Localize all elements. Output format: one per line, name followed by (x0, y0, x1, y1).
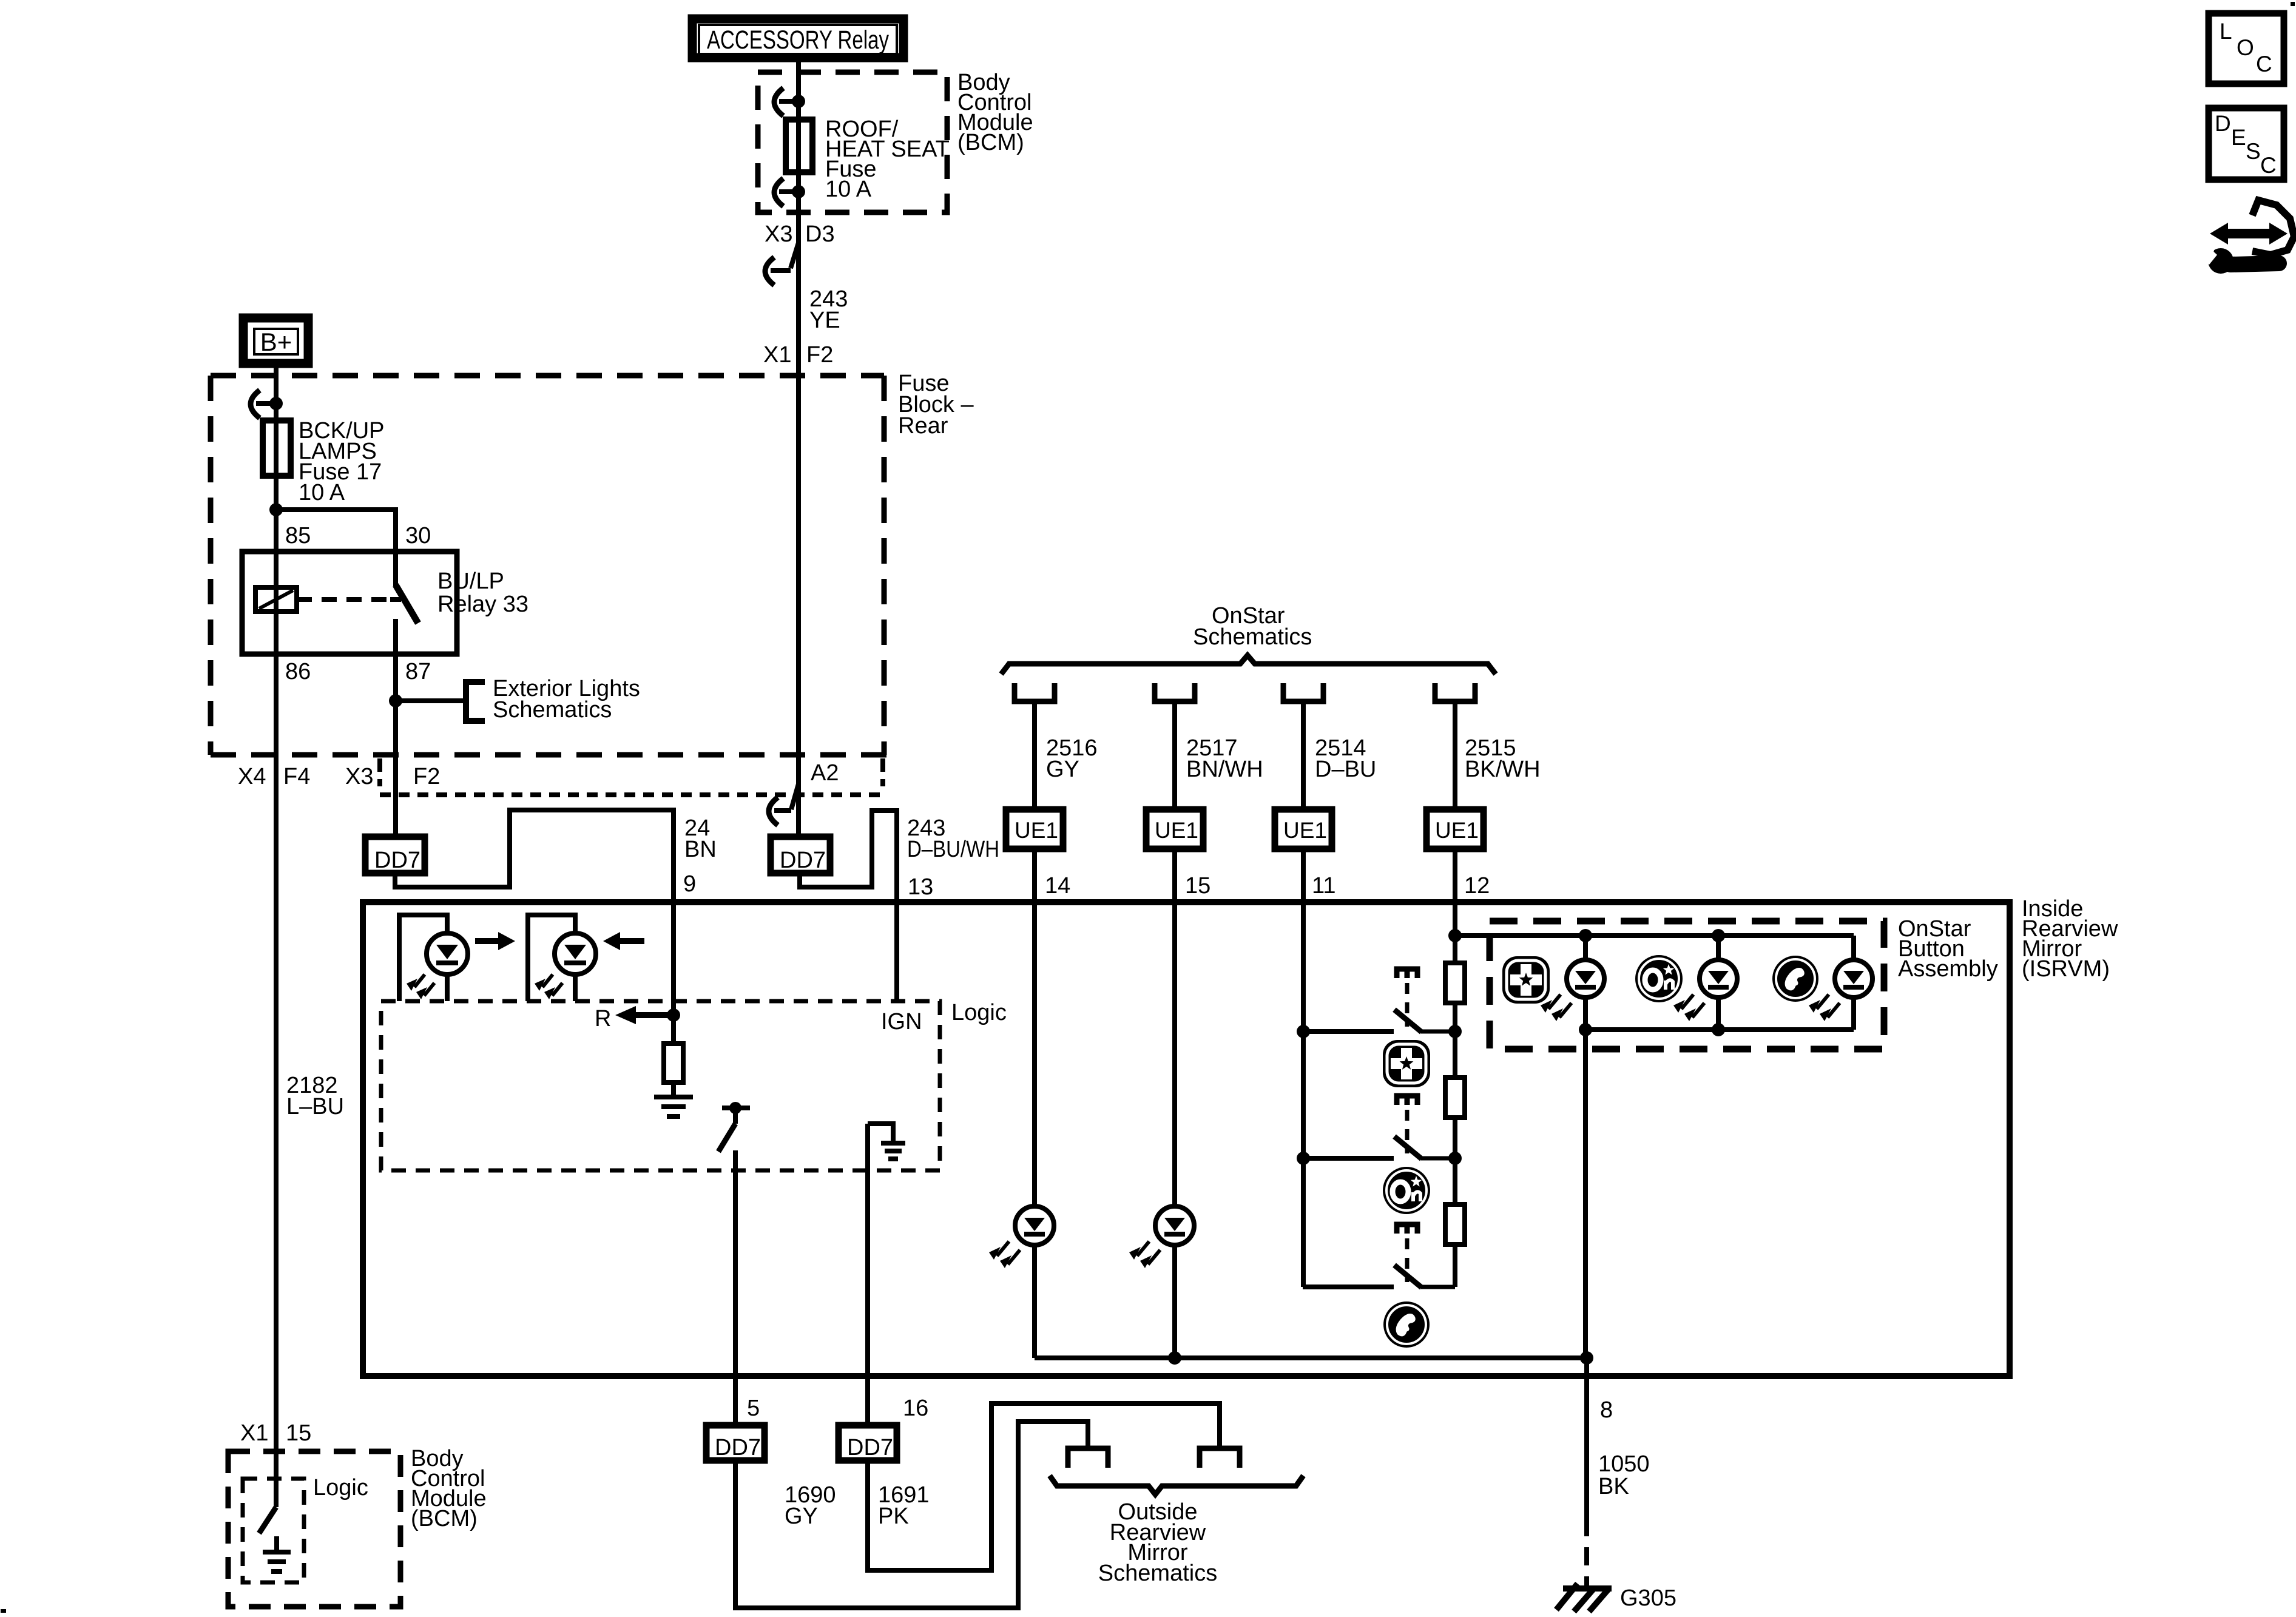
OnStar Button Assembly label (1898, 916, 1998, 982)
switch row 1 emergency (1303, 969, 1455, 1032)
svg-text:GY: GY (1046, 757, 1079, 782)
node exterior lights tap (389, 694, 402, 707)
brace OnStar schematics (1001, 655, 1496, 674)
svg-text:X1: X1 (763, 342, 791, 368)
wire 1050 BK (1584, 1376, 1589, 1518)
wire 2515 BK/WH (1453, 704, 1457, 809)
Inside Rearview Mirror (ISRVM) label (2022, 896, 2118, 982)
node BCM feed top (792, 95, 805, 108)
svg-text:DD7: DD7 (374, 848, 420, 873)
svg-text:(ISRVM): (ISRVM) (2022, 956, 2110, 982)
svg-text:85: 85 (285, 523, 311, 549)
connector jog X3/D3 (765, 243, 799, 285)
icon LOC box (2209, 13, 2284, 84)
svg-text:9: 9 (683, 871, 696, 897)
svg-text:(BCM): (BCM) (957, 130, 1024, 155)
connector to OnStar pin 11 (1283, 683, 1323, 701)
connector UE1 (1006, 809, 1063, 849)
wire label 243 D-BU/WH (907, 815, 999, 862)
connector UE1 (1427, 809, 1484, 849)
wire 243 D-BU/WH jog from DD7 (800, 811, 897, 1001)
arrow R input (615, 1006, 672, 1024)
LED A (1541, 936, 1604, 1030)
relay coil (255, 587, 297, 612)
connector strip X4/F4 X3/F2 A2 labels (238, 760, 839, 789)
BCM top dashed box (758, 72, 947, 212)
svg-text:Schematics: Schematics (1193, 624, 1312, 650)
svg-text:Schematics: Schematics (1098, 1561, 1217, 1586)
node BCK/UP fuse top (269, 397, 283, 410)
connector to OnStar pin 12 (1435, 683, 1475, 701)
icon onstar button assembly (1635, 955, 1683, 1002)
svg-text:12: 12 (1464, 873, 1490, 899)
icon arrow wrench (2190, 200, 2294, 274)
LED backlight 15 (1129, 1206, 1194, 1268)
relay BU/LP Relay 33 box (242, 552, 457, 654)
svg-text:Logic: Logic (951, 1000, 1007, 1025)
svg-text:UE1: UE1 (1283, 818, 1327, 843)
svg-text:BN: BN (684, 837, 717, 862)
wire exterior lights tap (396, 698, 466, 703)
node LED B bottom (1712, 1023, 1725, 1036)
connector to OnStar pin 15 (1155, 683, 1195, 701)
wire resistor chain top (1448, 929, 1462, 942)
resistor 2 (1445, 1078, 1465, 1118)
svg-text:D: D (2215, 111, 2231, 136)
connector DD7 A2 (771, 837, 830, 873)
wire 1690 GY route (735, 1422, 1088, 1608)
fuse ROOF/HEAT SEAT 10A (786, 120, 812, 172)
icon phone button ladder (1383, 1301, 1430, 1348)
icon emergency button ladder (1383, 1040, 1430, 1087)
wire LED bus top (1455, 933, 1854, 938)
ground in BCM logic (263, 1536, 291, 1571)
svg-text:Assembly: Assembly (1898, 956, 1998, 982)
svg-text:13: 13 (908, 874, 933, 900)
node chain 1 (1448, 1025, 1462, 1038)
wire B+ down left rail (274, 364, 279, 1507)
svg-text:R: R (595, 1006, 611, 1031)
ACCESSORY Relay title box (692, 19, 903, 58)
ground G305 (1556, 1584, 1612, 1612)
switch row 3 phone (1303, 1224, 1455, 1288)
wire pin 15 to LED (1172, 902, 1177, 1207)
wire 1691 PK route (868, 1403, 1220, 1570)
svg-text:X4: X4 (238, 764, 266, 789)
svg-text:D3: D3 (805, 221, 835, 247)
svg-text:X1: X1 (240, 1420, 268, 1446)
svg-text:GY: GY (785, 1504, 818, 1529)
wire UE1 to pin 12 (1453, 849, 1457, 936)
wire label 243 YE (809, 286, 848, 333)
svg-text:Logic: Logic (313, 1475, 368, 1501)
photodiode sensor B (528, 915, 596, 1001)
Logic dashed box BCM (243, 1479, 304, 1582)
svg-text:D–BU/WH: D–BU/WH (907, 837, 999, 862)
connector outside mirror right (1200, 1448, 1240, 1468)
svg-text:X3: X3 (765, 221, 792, 247)
node below fuse (792, 185, 805, 198)
BCK/UP LAMPS fuse label (299, 418, 384, 505)
Fuse Block - Rear dashed box (211, 376, 888, 755)
wire switch to pin 5 (733, 1150, 738, 1425)
svg-text:O: O (2237, 35, 2254, 60)
wire ISRVM ground bus (1035, 1355, 1587, 1360)
svg-text:5: 5 (747, 1396, 760, 1421)
wire label 1050 BK (1598, 1451, 1650, 1499)
LED B (1673, 936, 1737, 1030)
clip connector below fuse (774, 178, 799, 206)
svg-text:D–BU: D–BU (1315, 757, 1376, 782)
switch mirror fold in logic (718, 1102, 750, 1152)
svg-text:C: C (2256, 52, 2272, 76)
ROOF/HEAT SEAT Fuse label (825, 116, 950, 202)
svg-text:X3: X3 (345, 764, 373, 789)
icon phone button assembly (1772, 956, 1818, 1002)
wire ground hook to pin 16 (865, 1124, 870, 1425)
icon DESC box (2209, 108, 2284, 180)
svg-text:L: L (2220, 19, 2232, 44)
node rung 2 (1297, 1152, 1310, 1165)
switch in BCM logic (259, 1507, 276, 1533)
wire 2514 D-BU (1301, 704, 1306, 809)
svg-text:UE1: UE1 (1155, 818, 1198, 843)
svg-text:F2: F2 (413, 764, 440, 789)
svg-text:UE1: UE1 (1435, 818, 1479, 843)
connector strip dashed underline (380, 758, 885, 795)
svg-text:16: 16 (903, 1396, 928, 1421)
svg-text:G305: G305 (1620, 1585, 1676, 1611)
svg-text:DD7: DD7 (847, 1435, 893, 1460)
resistor 3 (1445, 1204, 1465, 1244)
Body Control Module (BCM) label bottom (411, 1446, 487, 1531)
connector X1/15 labels BCM (240, 1420, 311, 1446)
wire 2516 GY (1032, 704, 1037, 809)
svg-text:15: 15 (286, 1420, 311, 1446)
wire 24 BN jog from DD7 (395, 810, 674, 1015)
OnStar Schematics label (1193, 603, 1312, 650)
svg-text:IGN: IGN (881, 1009, 922, 1035)
wire pin 14 to LED (1032, 902, 1037, 1207)
wire label 2516 GY (1046, 735, 1098, 782)
clip connector at BCM feed top (774, 88, 799, 116)
photodiode sensor A (399, 915, 468, 1001)
connector to OnStar pin 14 (1015, 683, 1055, 701)
bracket exterior lights reference (466, 682, 485, 721)
relay switch blade (396, 585, 418, 623)
resistor below R (664, 1015, 683, 1096)
wire UE1 to pin 15 (1172, 849, 1177, 902)
switch row 2 onstar (1303, 1096, 1455, 1159)
node fuse bottom / relay branch (269, 503, 283, 516)
wire label 1691 PK (878, 1482, 930, 1529)
ground hook IGN side (868, 1124, 905, 1159)
svg-text:86: 86 (285, 659, 311, 684)
OnStar Button Assembly dashed box (1490, 921, 1884, 1049)
Body Control Module (BCM) label (957, 70, 1033, 155)
connector X1/F2 labels (763, 342, 833, 368)
Exterior Lights Schematics label (493, 676, 640, 723)
connector DD7 pin5 (706, 1425, 765, 1460)
svg-text:L–BU: L–BU (286, 1094, 344, 1119)
svg-text:87: 87 (405, 659, 431, 684)
svg-text:BU/LP: BU/LP (437, 569, 504, 594)
node LED B top (1712, 929, 1725, 942)
icon onstar button ladder (1383, 1167, 1430, 1214)
wire UE1 to pin 14 (1032, 849, 1037, 902)
svg-text:F4: F4 (283, 764, 310, 789)
node R tap (667, 1008, 680, 1022)
wire label 24 BN (684, 815, 717, 862)
svg-text:Schematics: Schematics (493, 697, 612, 723)
svg-text:BN/WH: BN/WH (1186, 757, 1263, 782)
svg-text:DD7: DD7 (780, 848, 826, 873)
node bus pin 8 (1580, 1351, 1593, 1365)
svg-text:A2: A2 (811, 760, 839, 786)
corner mark top right (2291, 2, 2295, 6)
node chain 2 (1448, 1152, 1462, 1165)
svg-text:C: C (2260, 153, 2277, 178)
svg-text:BK: BK (1598, 1474, 1629, 1499)
node LED A bottom (1579, 1023, 1592, 1036)
svg-text:PK: PK (878, 1504, 909, 1529)
wire LED return rail (1583, 1030, 1588, 1358)
resistor 1 (1445, 963, 1465, 1003)
LED backlight 14 (989, 1206, 1054, 1268)
svg-text:10 A: 10 A (299, 480, 345, 505)
wire pin 87 down (393, 619, 398, 837)
connector X3/D3 labels (765, 221, 835, 247)
svg-text:(BCM): (BCM) (411, 1506, 478, 1531)
wire UE1 to pin 11 (1301, 849, 1306, 902)
node LED A top (1579, 929, 1592, 942)
Logic dashed box ISRVM (381, 1001, 940, 1170)
svg-text:ACCESSORY Relay: ACCESSORY Relay (707, 25, 889, 55)
wire bus to pin 8 (1584, 1358, 1589, 1376)
wire dashed to G305 (1584, 1518, 1589, 1586)
ground in logic (654, 1097, 693, 1116)
svg-text:14: 14 (1045, 873, 1070, 899)
power symbol B+ box (243, 318, 308, 363)
svg-text:Relay 33: Relay 33 (437, 592, 528, 617)
svg-text:11: 11 (1312, 873, 1335, 899)
svg-text:1050: 1050 (1598, 1451, 1650, 1477)
svg-text:15: 15 (1185, 873, 1210, 899)
corner mark bottom left (1, 1609, 6, 1613)
connector UE1 (1146, 809, 1203, 849)
svg-text:BK/WH: BK/WH (1465, 757, 1541, 782)
node bus LED15 (1168, 1351, 1181, 1365)
wire label 2182 L-BU (286, 1073, 344, 1119)
connector UE1 (1275, 809, 1332, 849)
svg-text:8: 8 (1600, 1397, 1613, 1423)
icon emergency button assembly (1502, 956, 1550, 1004)
clip connector at BCK/UP fuse top (251, 390, 276, 418)
wire 2517 BN/WH (1172, 704, 1177, 809)
wire pin 11 button rail (1301, 902, 1306, 1287)
ISRVM box (363, 902, 2010, 1376)
relay link dashed (297, 597, 391, 602)
wire label 2517 BN/WH (1186, 735, 1263, 782)
Fuse Block - Rear label (898, 371, 974, 439)
svg-text:E: E (2231, 125, 2246, 150)
svg-text:UE1: UE1 (1015, 818, 1058, 843)
LED C (1809, 936, 1872, 1030)
connector outside mirror left (1068, 1448, 1108, 1468)
arrow left toward sensor B (603, 932, 644, 950)
svg-text:F2: F2 (806, 342, 833, 368)
wire label 1690 GY (785, 1482, 836, 1529)
wire branch to pin 30 (276, 510, 396, 586)
BU/LP Relay 33 label (437, 569, 528, 617)
svg-text:B+: B+ (260, 328, 292, 356)
svg-text:DD7: DD7 (715, 1435, 761, 1460)
connector DD7 left (365, 837, 425, 873)
svg-text:30: 30 (405, 523, 431, 549)
connector DD7 pin16 (839, 1425, 897, 1460)
svg-text:Rear: Rear (898, 413, 948, 439)
Outside Rearview Mirror Schematics label (1098, 1499, 1217, 1586)
brace outside mirror (1050, 1476, 1303, 1494)
svg-text:S: S (2246, 139, 2261, 164)
wire accessory relay feed 243 YE (796, 58, 801, 837)
fuse BCK/UP LAMPS Fuse 17 10A (263, 420, 291, 476)
arrow right of sensor A (475, 932, 515, 950)
node rung 1 (1297, 1025, 1310, 1038)
wire label 2515 BK/WH (1465, 735, 1541, 782)
wire label 2514 D-BU (1315, 735, 1376, 782)
svg-text:YE: YE (809, 308, 840, 333)
connector jog A2 (769, 784, 799, 825)
BCM bottom dashed box (228, 1451, 400, 1607)
wire LED bus bottom (1585, 1027, 1854, 1032)
svg-text:10 A: 10 A (825, 177, 872, 202)
